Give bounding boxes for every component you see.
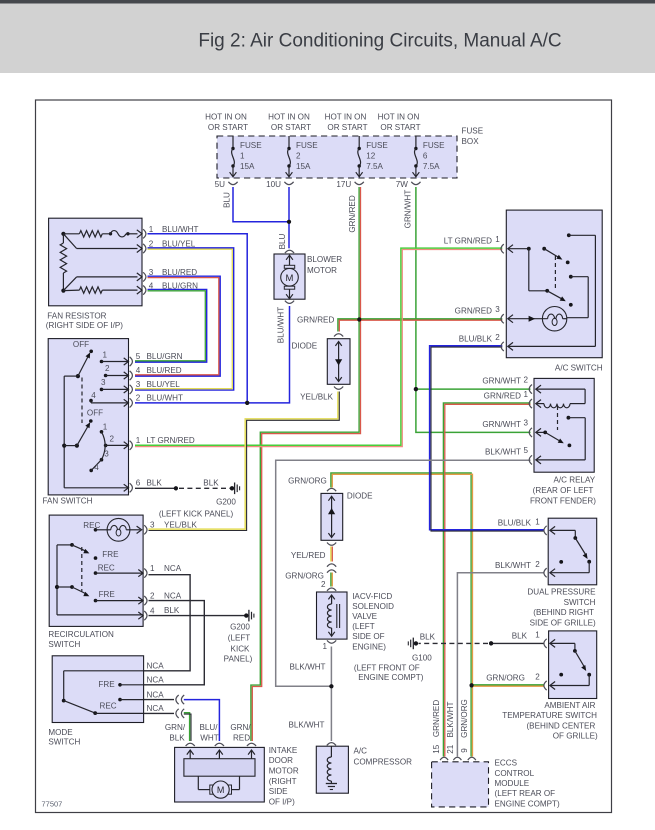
svg-text:FAN RESISTOR: FAN RESISTOR bbox=[47, 311, 106, 320]
wire label BLU/WHT (fan switch pin 2) bbox=[147, 393, 183, 402]
svg-text:CONTROL: CONTROL bbox=[495, 769, 535, 778]
figure number 77507 bbox=[42, 800, 63, 809]
label MODE SWITCH bbox=[48, 728, 80, 747]
dual pressure switch pin 1 bbox=[535, 518, 546, 535]
svg-text:7W: 7W bbox=[396, 180, 409, 189]
ECCS pin 9 connector bbox=[468, 757, 476, 760]
ambient air temperature switch internals bbox=[550, 639, 591, 689]
connector 7W bbox=[396, 180, 421, 189]
fuse 12 (7.5A) bbox=[356, 136, 363, 177]
label IACV-FICD SOLENOID VALVE bbox=[352, 592, 394, 652]
wire label GRN/WHT (fuse 6) bbox=[404, 190, 413, 229]
svg-text:RECIRCULATION: RECIRCULATION bbox=[48, 630, 114, 639]
svg-text:(LEFT: (LEFT bbox=[228, 633, 251, 642]
fuse 1 value label bbox=[240, 141, 262, 171]
dual pressure switch pin 2 bbox=[535, 560, 546, 577]
svg-text:2: 2 bbox=[150, 591, 155, 600]
fuse 6 value label bbox=[423, 141, 445, 171]
svg-text:2: 2 bbox=[495, 333, 500, 342]
mode switch internals bbox=[62, 671, 144, 715]
recirculation switch box bbox=[49, 515, 143, 626]
svg-text:SIDE OF: SIDE OF bbox=[352, 632, 384, 641]
svg-text:BLK/WHT: BLK/WHT bbox=[495, 561, 531, 570]
wire label BLU/RED (fan switch pin 4) bbox=[147, 366, 182, 375]
mode switch box bbox=[52, 656, 143, 723]
ground G200 (fan switch) bbox=[230, 483, 240, 495]
label BLOWER MOTOR bbox=[307, 255, 342, 275]
svg-text:M: M bbox=[286, 273, 294, 284]
A/C relay pin 3 bbox=[524, 419, 532, 437]
diode D1 box bbox=[327, 339, 350, 385]
svg-text:1: 1 bbox=[495, 235, 500, 244]
wire label BLU/WHT (fan resistor pin 1) bbox=[162, 225, 198, 234]
wire label YEL/RED bbox=[291, 551, 326, 560]
svg-text:FUSE: FUSE bbox=[462, 127, 484, 136]
wire label BLK/WHT 2 (DPS) bbox=[495, 561, 531, 570]
label BLK (near G200) bbox=[203, 479, 219, 488]
svg-text:BLU/YEL: BLU/YEL bbox=[147, 380, 181, 389]
junction BLK dash transition (G100) bbox=[489, 641, 493, 645]
wire label BLU/BLK 1 (DPS) bbox=[498, 518, 532, 527]
fan switch box bbox=[48, 339, 128, 495]
svg-text:FUSE: FUSE bbox=[240, 141, 262, 150]
svg-text:4: 4 bbox=[150, 606, 155, 615]
wire label NCA (recirc pin 1) bbox=[164, 564, 182, 573]
fuse 6 (7.5A) bbox=[413, 136, 420, 177]
label G100 bbox=[412, 654, 432, 663]
svg-text:BLU/BLK: BLU/BLK bbox=[498, 518, 532, 527]
wire BLU/BLK A/C switch pin 2 to dual pressure switch pin 1 bbox=[430, 346, 545, 531]
fuse 2 (15A) bbox=[286, 136, 293, 177]
wire label NCA (mode switch 1) bbox=[147, 662, 165, 671]
svg-text:BLK: BLK bbox=[169, 734, 185, 743]
label INTAKE DOOR MOTOR bbox=[269, 746, 299, 807]
svg-text:OR START: OR START bbox=[327, 123, 367, 132]
blower motor box bbox=[274, 254, 305, 299]
wire label BLK/WHT 5 (relay) bbox=[485, 447, 521, 456]
wire label BLU/GRN (fan switch pin 5) bbox=[147, 352, 183, 361]
svg-text:REC: REC bbox=[98, 564, 115, 573]
svg-text:BLK/WHT: BLK/WHT bbox=[446, 701, 455, 737]
fan switch pin 1 bbox=[124, 436, 141, 450]
svg-text:FRE: FRE bbox=[99, 590, 116, 599]
title bar bbox=[0, 0, 655, 73]
svg-text:M: M bbox=[217, 785, 225, 795]
A/C relay box bbox=[534, 378, 594, 472]
junction dot BLK/WHT (compressor) bbox=[329, 684, 333, 688]
svg-text:COMPRESSOR: COMPRESSOR bbox=[354, 758, 413, 767]
label DUAL PRESSURE SWITCH bbox=[527, 588, 596, 628]
svg-text:FUSE: FUSE bbox=[423, 141, 445, 150]
wire label BLU/BLK 2 bbox=[459, 334, 493, 343]
svg-text:GRN/: GRN/ bbox=[230, 723, 251, 732]
wire LT GRN/RED fan switch pin 1 to A/C switch pin 1 bbox=[135, 248, 502, 447]
wire YEL/RED diode 2 to inline connector bbox=[331, 547, 332, 562]
wire label BLK 1 (ambient) bbox=[512, 632, 528, 641]
svg-text:15A: 15A bbox=[240, 162, 255, 171]
svg-text:6: 6 bbox=[423, 152, 428, 161]
fan resistor internals bbox=[60, 231, 137, 294]
svg-text:7.5A: 7.5A bbox=[366, 162, 383, 171]
svg-text:2: 2 bbox=[136, 393, 141, 402]
svg-text:6: 6 bbox=[136, 478, 141, 487]
label FUSE BOX bbox=[462, 127, 484, 147]
wire BLK/WHT IACV pin 1 down bbox=[330, 647, 332, 687]
wire BLK dashed to G100 bbox=[419, 642, 489, 644]
svg-text:BLU/RED: BLU/RED bbox=[147, 366, 182, 375]
svg-text:BLK/WHT: BLK/WHT bbox=[289, 721, 325, 730]
svg-text:21: 21 bbox=[446, 744, 455, 754]
svg-text:BLU/GRN: BLU/GRN bbox=[147, 352, 183, 361]
svg-text:BOX: BOX bbox=[462, 137, 480, 146]
svg-text:IACV-FICD: IACV-FICD bbox=[352, 592, 392, 601]
wire BLK ambient switch pin 1 solid bbox=[491, 642, 544, 644]
dual pressure switch internals bbox=[550, 526, 591, 576]
A/C relay internals bbox=[536, 385, 585, 464]
label DIODE (D2) bbox=[347, 492, 373, 501]
fan resistor pin 1 bbox=[137, 225, 154, 238]
wire BLK/WHT junction to A/C compressor bbox=[330, 686, 332, 741]
wire GRN/RED junction to A/C switch pin 3 and diode 1 bbox=[338, 319, 502, 332]
svg-text:9: 9 bbox=[460, 748, 469, 753]
wire label BLK (recirc pin 4) bbox=[164, 606, 180, 615]
wire label GRN/ORG 2 (ambient) bbox=[486, 673, 525, 682]
wire GRN/ORG diode 2 to ECCS pin 9 bbox=[331, 473, 473, 757]
svg-text:INTAKE: INTAKE bbox=[269, 746, 298, 755]
ECCS control module box bbox=[432, 762, 489, 807]
svg-text:1: 1 bbox=[103, 351, 108, 360]
svg-text:HOT IN ON: HOT IN ON bbox=[325, 113, 367, 122]
svg-text:FAN SWITCH: FAN SWITCH bbox=[43, 496, 93, 505]
svg-text:BLK/WHT: BLK/WHT bbox=[485, 447, 521, 456]
wire label GRN/RED (intake motor) bbox=[230, 723, 251, 743]
svg-text:DUAL PRESSURE: DUAL PRESSURE bbox=[527, 588, 596, 597]
svg-text:ENGINE COMPT): ENGINE COMPT) bbox=[358, 673, 424, 682]
svg-text:2: 2 bbox=[105, 364, 110, 373]
fan resistor box bbox=[49, 218, 142, 306]
fan switch pin 2 bbox=[124, 393, 141, 407]
label RECIRCULATION SWITCH bbox=[48, 630, 114, 649]
svg-text:RED: RED bbox=[233, 734, 250, 743]
svg-text:15: 15 bbox=[432, 744, 441, 754]
svg-text:3: 3 bbox=[495, 305, 500, 314]
svg-text:3: 3 bbox=[136, 380, 141, 389]
fuse box bbox=[217, 136, 457, 178]
svg-text:LT GRN/RED: LT GRN/RED bbox=[444, 237, 492, 246]
svg-text:GRN/: GRN/ bbox=[165, 723, 186, 732]
wire label BLU/YEL (fan switch pin 3) bbox=[147, 380, 181, 389]
intake door motor symbol bbox=[184, 743, 256, 798]
svg-text:2: 2 bbox=[535, 560, 540, 569]
svg-text:(LEFT KICK PANEL): (LEFT KICK PANEL) bbox=[159, 510, 234, 519]
wire GRN/WHT fuse 6 to A/C relay pin 3 bbox=[416, 187, 531, 432]
HOT IN ON OR START label (fuse 6) bbox=[378, 113, 421, 133]
wire label BLU/WHT (vertical, blower) bbox=[277, 307, 286, 343]
A/C compressor box bbox=[316, 746, 348, 793]
svg-text:G200: G200 bbox=[230, 623, 250, 632]
svg-text:GRN/RED: GRN/RED bbox=[348, 195, 357, 232]
svg-text:SWITCH: SWITCH bbox=[564, 598, 596, 607]
svg-text:(BEHIND CENTER: (BEHIND CENTER bbox=[526, 721, 595, 730]
svg-text:ENGINE COMPT): ENGINE COMPT) bbox=[495, 799, 561, 808]
svg-text:OR START: OR START bbox=[380, 123, 420, 132]
svg-text:MOTOR: MOTOR bbox=[307, 266, 337, 275]
ECCS pin number 15 bbox=[432, 744, 441, 754]
label FAN RESISTOR bbox=[46, 311, 123, 330]
svg-text:GRN/WHT: GRN/WHT bbox=[482, 420, 521, 429]
svg-text:2: 2 bbox=[524, 375, 529, 384]
ECCS pin number 9 bbox=[460, 748, 469, 753]
A/C compressor symbol bbox=[326, 743, 337, 790]
svg-text:ECCS: ECCS bbox=[495, 759, 518, 768]
svg-text:2: 2 bbox=[321, 580, 326, 589]
label G200 (LEFT KICK PANEL) bbox=[159, 497, 237, 518]
ECCS pin 21 connector bbox=[453, 757, 461, 760]
wire BLU from fuse 1 bbox=[233, 187, 289, 222]
fuse 1 (15A) bbox=[230, 136, 237, 177]
svg-text:BLK/WHT: BLK/WHT bbox=[290, 662, 326, 671]
svg-text:HOT IN ON: HOT IN ON bbox=[378, 113, 420, 122]
svg-text:FRE: FRE bbox=[98, 680, 115, 689]
svg-text:VALVE: VALVE bbox=[352, 612, 377, 621]
svg-text:PANEL): PANEL) bbox=[224, 655, 253, 664]
svg-text:G200: G200 bbox=[216, 497, 236, 506]
dual pressure switch box bbox=[548, 518, 597, 585]
svg-text:(LEFT REAR OF: (LEFT REAR OF bbox=[495, 789, 556, 798]
ambient switch pin 1 bbox=[535, 631, 546, 648]
wire GRN/RED ECCS pin 15 to A/C relay pin 1 bbox=[443, 403, 530, 757]
svg-text:3: 3 bbox=[150, 521, 155, 530]
svg-text:MODE: MODE bbox=[48, 728, 73, 737]
svg-text:SIDE OF GRILLE): SIDE OF GRILLE) bbox=[530, 619, 596, 628]
svg-text:1: 1 bbox=[103, 422, 108, 431]
svg-text:12: 12 bbox=[366, 152, 376, 161]
wire label BLK/WHT (compressor) bbox=[289, 721, 325, 730]
svg-text:4: 4 bbox=[136, 366, 141, 375]
A/C switch internals bbox=[508, 233, 596, 350]
junction dot BLK (ambient ground) bbox=[489, 641, 493, 645]
svg-text:1: 1 bbox=[149, 225, 154, 234]
svg-text:NCA: NCA bbox=[164, 564, 182, 573]
recirculation switch pin 3 bbox=[144, 521, 155, 535]
label A/C COMPRESSOR bbox=[354, 747, 413, 767]
svg-text:G100: G100 bbox=[412, 654, 432, 663]
svg-text:GRN/ORG: GRN/ORG bbox=[486, 673, 525, 682]
fan switch pin 6 bbox=[124, 478, 141, 492]
junction dot BLU (fuse1/fuse2) bbox=[287, 220, 291, 224]
A/C switch pin 3 bbox=[495, 305, 504, 323]
svg-text:NCA: NCA bbox=[147, 676, 165, 685]
svg-text:OR START: OR START bbox=[271, 123, 311, 132]
A/C relay pin 1 bbox=[524, 390, 532, 408]
svg-text:GRN/WHT: GRN/WHT bbox=[404, 190, 413, 229]
wire BLK dashed to G200 bbox=[179, 487, 230, 489]
svg-text:GRN/RED: GRN/RED bbox=[455, 307, 492, 316]
wire label BLK/WHT (IACV) bbox=[290, 662, 326, 671]
wire GRN/RED fuse 12 to intake door motor bbox=[251, 187, 361, 741]
svg-text:SWITCH: SWITCH bbox=[48, 640, 80, 649]
wire BLU/YEL fan resistor pin 2 to fan switch pin 3 bbox=[135, 248, 234, 390]
wire label GRN/BLK (intake motor) bbox=[165, 723, 186, 743]
wire NCA recirculation pin 1 to mode switch bbox=[144, 575, 191, 671]
wire label BLU (fuse 2) bbox=[278, 233, 287, 249]
svg-text:WHT: WHT bbox=[200, 734, 218, 743]
svg-text:(LEFT: (LEFT bbox=[352, 622, 375, 631]
wire label GRN/RED (fuse 12) bbox=[348, 195, 357, 232]
svg-text:3: 3 bbox=[104, 449, 109, 458]
svg-text:BLU/WHT: BLU/WHT bbox=[147, 393, 183, 402]
recirculation switch internals bbox=[55, 518, 143, 615]
A/C switch pin 1 bbox=[495, 235, 504, 253]
fan resistor pin 2 bbox=[137, 240, 154, 253]
svg-text:BLU/: BLU/ bbox=[200, 723, 219, 732]
svg-text:YEL/BLK: YEL/BLK bbox=[300, 392, 333, 401]
ground G100 bbox=[408, 638, 418, 650]
svg-text:NCA: NCA bbox=[147, 662, 165, 671]
svg-text:3: 3 bbox=[524, 419, 529, 428]
svg-text:GRN/ORG: GRN/ORG bbox=[288, 476, 327, 485]
wire label LT GRN/RED (fan switch pin 1) bbox=[147, 436, 195, 445]
fan switch pin 5 bbox=[124, 352, 141, 366]
svg-text:4: 4 bbox=[94, 463, 99, 472]
svg-text:OF GRILLE): OF GRILLE) bbox=[553, 732, 598, 741]
fan switch pin 3 bbox=[124, 380, 141, 394]
svg-text:SOLENOID: SOLENOID bbox=[352, 602, 394, 611]
svg-text:1: 1 bbox=[150, 564, 155, 573]
wire label NCA (mode switch 4) bbox=[147, 704, 165, 713]
wire label GRN/ORG (ECCS 9) bbox=[460, 699, 469, 738]
wire label NCA (mode switch 2) bbox=[147, 676, 165, 685]
wire BLU/RED fan resistor pin 3 to fan switch pin 4 bbox=[135, 276, 220, 376]
svg-text:GRN/RED: GRN/RED bbox=[297, 315, 334, 324]
A/C switch pin 2 bbox=[495, 333, 504, 351]
svg-text:1: 1 bbox=[322, 642, 327, 651]
svg-text:FRE: FRE bbox=[102, 550, 119, 559]
junction dot BLK (fan switch ground) bbox=[174, 486, 178, 490]
svg-text:1: 1 bbox=[535, 518, 540, 527]
wire label BLK (fan switch pin 6) bbox=[147, 478, 163, 487]
wire BLU/WHT blower motor to fan switch pin 2 bbox=[135, 306, 290, 403]
svg-text:3: 3 bbox=[101, 378, 106, 387]
HOT IN ON OR START label (fuse 12) bbox=[325, 113, 368, 133]
wire label GRN/RED (ECCS 15) bbox=[432, 700, 441, 737]
svg-text:FUSE: FUSE bbox=[296, 141, 318, 150]
wire BLU/WHT mode switch to intake door motor bbox=[184, 700, 220, 741]
junction GRN/RED at diode branch bbox=[357, 317, 361, 321]
wire label YEL/BLK (diode 1) bbox=[300, 392, 333, 401]
svg-text:GRN/ORG: GRN/ORG bbox=[285, 571, 324, 580]
svg-text:5: 5 bbox=[136, 352, 141, 361]
ECCS pin number 21 bbox=[446, 744, 455, 754]
connector 10U bbox=[266, 180, 293, 189]
junction GRN/ORG at ambient switch branch bbox=[470, 683, 474, 687]
diode D1 symbol bbox=[334, 334, 343, 390]
junction BLK/WHT at compressor bbox=[329, 684, 333, 688]
inline connector mode NCA4 bbox=[176, 709, 184, 718]
intake door motor box bbox=[175, 747, 265, 802]
svg-text:KICK: KICK bbox=[231, 644, 250, 653]
svg-text:FRONT FENDER): FRONT FENDER) bbox=[530, 496, 596, 505]
svg-text:7.5A: 7.5A bbox=[423, 162, 440, 171]
junction dot GRN/RED (diode branch) bbox=[357, 317, 361, 321]
wire BLU/WHT fan resistor pin 1 bbox=[148, 234, 248, 403]
svg-text:BLU: BLU bbox=[278, 233, 287, 249]
svg-text:OF I/P): OF I/P) bbox=[269, 797, 295, 806]
wire label NCA (mode switch 3) bbox=[147, 690, 165, 699]
svg-text:15A: 15A bbox=[296, 162, 311, 171]
svg-text:(BEHIND RIGHT: (BEHIND RIGHT bbox=[533, 608, 594, 617]
wire NCA mode switch 3 stub bbox=[144, 699, 174, 701]
svg-text:A/C SWITCH: A/C SWITCH bbox=[555, 363, 603, 372]
svg-text:BLU/BLK: BLU/BLK bbox=[459, 334, 493, 343]
label A/C SWITCH bbox=[555, 363, 603, 372]
svg-text:FUSE: FUSE bbox=[366, 141, 388, 150]
svg-text:LT GRN/RED: LT GRN/RED bbox=[147, 436, 195, 445]
fan switch internals bbox=[62, 340, 128, 488]
svg-text:REC: REC bbox=[100, 701, 117, 710]
svg-text:ENGINE): ENGINE) bbox=[352, 643, 386, 652]
ground G200 (recirculation switch) bbox=[244, 610, 254, 622]
label FAN SWITCH bbox=[43, 496, 93, 505]
A/C relay pin 2 bbox=[524, 375, 532, 393]
svg-text:BLK: BLK bbox=[512, 632, 528, 641]
wire label GRN/WHT 3 (relay) bbox=[482, 420, 521, 429]
wire label BLU (fuse 1) bbox=[222, 192, 231, 208]
diode D2 symbol bbox=[327, 488, 336, 545]
connector 17U bbox=[336, 180, 363, 189]
connector 5U bbox=[215, 180, 238, 189]
svg-text:YEL/RED: YEL/RED bbox=[291, 551, 326, 560]
HOT IN ON OR START label (fuse 1) bbox=[205, 113, 248, 133]
svg-text:GRN/WHT: GRN/WHT bbox=[482, 376, 521, 385]
svg-text:SIDE: SIDE bbox=[269, 787, 288, 796]
svg-text:TEMPERATURE SWITCH: TEMPERATURE SWITCH bbox=[502, 711, 597, 720]
svg-text:BLOWER: BLOWER bbox=[307, 255, 342, 264]
svg-text:2: 2 bbox=[110, 435, 115, 444]
wire label GRN/WHT 2 (relay) bbox=[482, 376, 521, 385]
label (LEFT FRONT OF ENGINE COMPT) bbox=[354, 663, 424, 682]
svg-text:GRN/RED: GRN/RED bbox=[432, 700, 441, 737]
wire label BLU/WHT (intake motor) bbox=[200, 723, 219, 743]
wire BLK fan switch pin 6 solid bbox=[135, 487, 176, 489]
svg-text:17U: 17U bbox=[336, 180, 351, 189]
svg-text:BLU/WHT: BLU/WHT bbox=[277, 307, 286, 343]
HOT IN ON OR START label (fuse 2) bbox=[268, 113, 311, 133]
svg-text:5: 5 bbox=[524, 446, 529, 455]
svg-text:HOT IN ON: HOT IN ON bbox=[268, 113, 310, 122]
IACV pin 1 label bbox=[322, 642, 327, 651]
fan resistor pin 3 bbox=[137, 268, 154, 281]
svg-text:REC: REC bbox=[83, 521, 100, 530]
wire BLK/WHT A/C relay pin 5 to compressor junction bbox=[276, 460, 531, 686]
svg-text:DIODE: DIODE bbox=[347, 492, 373, 501]
junction dot GRN/WHT (relay pin2 branch) bbox=[414, 387, 418, 391]
svg-text:OFF: OFF bbox=[73, 340, 89, 349]
wire label GRN/RED 3 bbox=[455, 307, 492, 316]
fan resistor pin 4 bbox=[137, 281, 154, 294]
svg-text:NCA: NCA bbox=[164, 591, 182, 600]
junction BLK dash transition bbox=[174, 486, 178, 490]
junction fuse1/fuse2 BLU bbox=[287, 220, 291, 224]
svg-text:YEL/BLK: YEL/BLK bbox=[164, 521, 197, 530]
svg-text:HOT IN ON: HOT IN ON bbox=[205, 113, 247, 122]
wire label GRN/RED (diode 1) bbox=[297, 315, 334, 324]
wire label BLU/GRN (fan resistor pin 4) bbox=[162, 281, 198, 290]
wire BLK/WHT dual pressure switch pin 2 to ECCS pin 21 bbox=[457, 573, 544, 757]
junction dot BLU/WHT bbox=[245, 401, 249, 405]
svg-text:OFF: OFF bbox=[87, 409, 103, 418]
wire label LT GRN/RED 1 bbox=[444, 237, 492, 246]
